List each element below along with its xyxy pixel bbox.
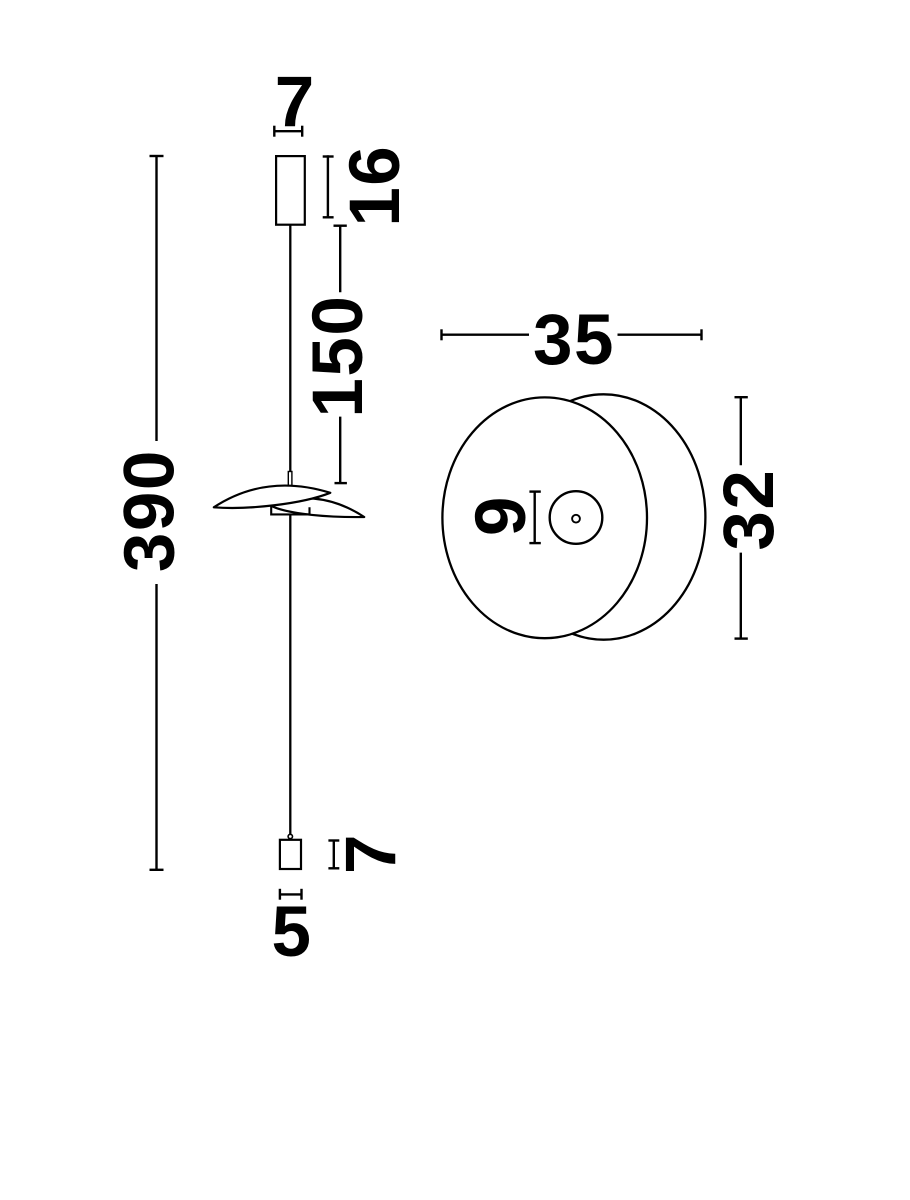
- suspension cable lower: [289, 515, 291, 835]
- dimension line 5 (counterweight width): [280, 889, 302, 900]
- svg-text:32: 32: [710, 469, 789, 551]
- svg-text:9: 9: [462, 497, 541, 537]
- dimension line 7 (canopy width): [274, 126, 302, 137]
- cable grip dome on counterweight: [288, 834, 292, 838]
- cable connector above shade: [288, 472, 292, 487]
- hub center hole: [572, 515, 580, 523]
- LED plate (edge-on rectangle): [271, 506, 309, 515]
- canopy (ceiling cup): [276, 156, 305, 225]
- dimension line 390 (total height): [150, 156, 164, 870]
- counterweight (bottom cylinder): [280, 840, 301, 869]
- dimension line 150 (cable length): [334, 226, 347, 483]
- dimension line 35 (disc diameter): [442, 329, 702, 340]
- dimension line 32 (disc height): [735, 397, 748, 638]
- shade right disc (rear leaf): [272, 498, 364, 517]
- suspension cable upper: [289, 225, 291, 472]
- dimension line 16 (canopy height): [323, 155, 334, 218]
- svg-text:390: 390: [111, 449, 190, 572]
- svg-text:5: 5: [271, 893, 311, 972]
- rear disc (side view, right ellipse): [502, 394, 706, 639]
- svg-text:16: 16: [336, 145, 415, 227]
- hub circle: [550, 491, 603, 544]
- front disc (side view, left ellipse): [442, 397, 647, 638]
- svg-text:7: 7: [332, 835, 411, 875]
- svg-text:35: 35: [533, 301, 615, 380]
- svg-text:150: 150: [299, 295, 378, 418]
- dimension line 9 (hub diameter): [529, 492, 540, 543]
- dimension line 7 (counterweight height): [328, 841, 339, 869]
- shade left disc (front leaf): [214, 486, 330, 508]
